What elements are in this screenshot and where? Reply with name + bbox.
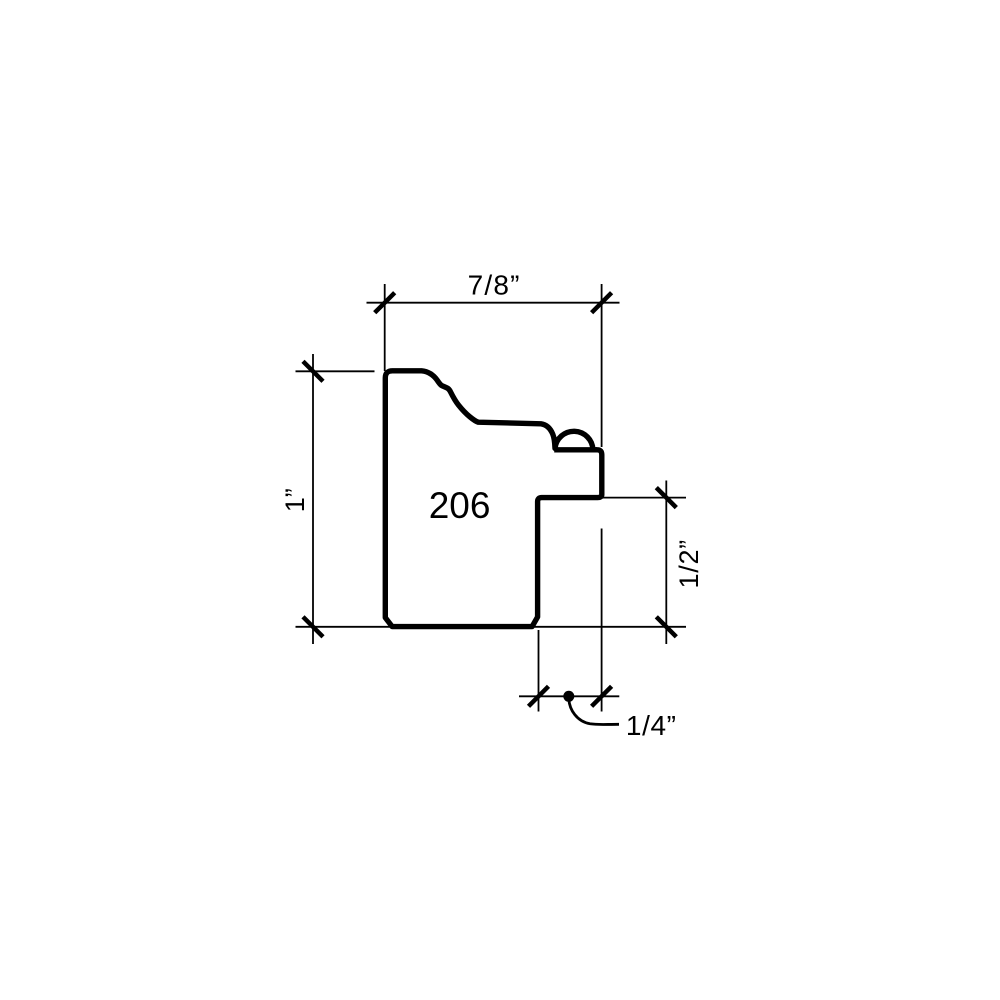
svg-text:206: 206	[429, 485, 491, 526]
svg-text:1/2”: 1/2”	[674, 539, 704, 588]
svg-text:1”: 1”	[280, 488, 310, 512]
svg-text:7/8”: 7/8”	[468, 270, 521, 301]
svg-text:1/4”: 1/4”	[626, 710, 677, 741]
